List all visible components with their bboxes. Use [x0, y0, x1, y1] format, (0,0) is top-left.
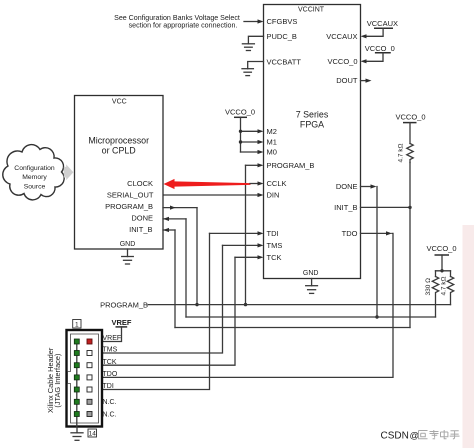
- svg-text:VCCO_0: VCCO_0: [426, 244, 456, 253]
- ground header: [71, 427, 83, 440]
- net PROGRAM_B row: [100, 301, 450, 310]
- svg-text:4.7 kΩ: 4.7 kΩ: [441, 276, 448, 295]
- svg-text:TDI: TDI: [103, 383, 114, 390]
- svg-text:14: 14: [89, 431, 97, 438]
- svg-text:CSDN: CSDN: [381, 431, 409, 442]
- svg-text:PROGRAM_B: PROGRAM_B: [100, 301, 148, 310]
- svg-text:N.C.: N.C.: [103, 399, 117, 406]
- wire M1: [239, 140, 264, 144]
- wire M2: [239, 129, 264, 133]
- svg-text:VCCAUX: VCCAUX: [326, 32, 357, 41]
- power VCCO_0 (INIT_B pullup): [395, 113, 425, 144]
- svg-text:330 Ω: 330 Ω: [425, 278, 432, 296]
- svg-text:Microprocessor: Microprocessor: [88, 135, 149, 145]
- net TDO: [92, 231, 393, 379]
- svg-text:INIT_B: INIT_B: [334, 203, 357, 212]
- header ground bus: [76, 342, 78, 428]
- svg-text:VCCBATT: VCCBATT: [267, 58, 302, 67]
- svg-text:TDO: TDO: [342, 229, 358, 238]
- svg-text:TDI: TDI: [267, 229, 279, 238]
- svg-text:CLOCK: CLOCK: [127, 179, 153, 188]
- wire CCLK pin arrow: [250, 181, 264, 185]
- net INIT_B (micro side): [163, 228, 175, 328]
- pink edge strip: [463, 225, 474, 448]
- svg-text:PROGRAM_B: PROGRAM_B: [105, 202, 153, 211]
- net PROGRAM_B (FPGA side vertical): [244, 163, 264, 306]
- svg-text:@: @: [410, 431, 420, 442]
- svg-text:1: 1: [75, 321, 79, 328]
- svg-text:VREF: VREF: [103, 335, 122, 342]
- svg-text:CCLK: CCLK: [267, 179, 287, 188]
- svg-text:7 Series: 7 Series: [296, 110, 329, 120]
- svg-text:VCCAUX: VCCAUX: [367, 19, 398, 28]
- pin 1 label: [73, 320, 81, 329]
- net TDI: [92, 231, 264, 389]
- svg-text:VCCO_0: VCCO_0: [327, 57, 357, 66]
- watermark CSDN: [381, 430, 460, 442]
- resistor 4.7k PROGRAM_B pullup: [441, 271, 454, 305]
- svg-text:VCCINT: VCCINT: [298, 6, 325, 13]
- ground micro: [122, 249, 134, 264]
- svg-text:SERIAL_OUT: SERIAL_OUT: [107, 190, 154, 199]
- svg-text:DONE: DONE: [336, 182, 358, 191]
- svg-text:VCCO_0: VCCO_0: [365, 44, 395, 53]
- header left pads (GND pins): [74, 339, 79, 417]
- wire M0: [241, 150, 264, 154]
- FPGA left pin labels: [267, 17, 315, 262]
- svg-text:TMS: TMS: [267, 241, 283, 250]
- svg-text:TCK: TCK: [267, 253, 282, 262]
- svg-text:(JTAG Interface): (JTAG Interface): [53, 354, 62, 408]
- svg-text:DIN: DIN: [267, 191, 280, 200]
- svg-text:or CPLD: or CPLD: [102, 146, 136, 156]
- wire CFGBVS: [244, 19, 264, 23]
- svg-text:4.7 kΩ: 4.7 kΩ: [398, 143, 405, 162]
- net DONE (FPGA side): [186, 184, 436, 318]
- svg-text:CFGBVS: CFGBVS: [267, 17, 298, 26]
- pin 14 label: [88, 429, 97, 438]
- resistor 330 DONE pullup: [425, 271, 439, 317]
- FPGA U1 box: [264, 5, 361, 279]
- wire DOUT: [361, 79, 372, 83]
- net INIT_B: [175, 163, 412, 328]
- note: See Configuration Banks text: [114, 14, 240, 29]
- svg-text:DONE: DONE: [131, 214, 153, 223]
- ground PUDC_B: [242, 36, 263, 50]
- power VREF: [93, 318, 132, 344]
- power VCCO_0 (mode pins): [225, 107, 255, 152]
- svg-text:VCCO_0: VCCO_0: [395, 113, 425, 122]
- svg-text:N.C.: N.C.: [103, 411, 117, 418]
- micro pin labels: [105, 179, 154, 234]
- svg-text:GND: GND: [120, 241, 136, 248]
- svg-text:FPGA: FPGA: [300, 120, 324, 130]
- red annotation arrow CCLK->CLOCK: [164, 179, 251, 189]
- svg-text:M2: M2: [267, 127, 277, 136]
- net TCK: [92, 255, 264, 365]
- svg-text:section for appropriate connec: section for appropriate connection.: [129, 21, 238, 29]
- microprocessor box: [75, 96, 164, 250]
- wire SERIAL_OUT to DIN: [163, 193, 264, 197]
- svg-text:PROGRAM_B: PROGRAM_B: [267, 161, 315, 170]
- net DONE (micro side): [163, 217, 186, 317]
- grey arrow cloud to micro: [64, 164, 74, 180]
- svg-text:Configuration: Configuration: [14, 165, 55, 172]
- FPGA right pin labels: [326, 32, 358, 238]
- net PROGRAM_B (micro side): [163, 206, 199, 307]
- power VCCAUX: [361, 19, 399, 38]
- svg-text:TMS: TMS: [103, 347, 118, 354]
- JTAG header connector body: [67, 330, 103, 427]
- ground FPGA: [306, 279, 318, 294]
- svg-text:VREF: VREF: [111, 318, 131, 327]
- cloud Configuration Memory Source: [3, 145, 64, 200]
- svg-text:GND: GND: [303, 270, 319, 277]
- svg-text:DOUT: DOUT: [336, 76, 358, 85]
- header pin labels: [103, 335, 122, 418]
- power VCCO_0 (right): [361, 44, 395, 63]
- svg-text:INIT_B: INIT_B: [129, 225, 152, 234]
- svg-text:PUDC_B: PUDC_B: [267, 32, 297, 41]
- resistor 4.7k INIT_B: [398, 143, 414, 162]
- svg-text:M1: M1: [267, 138, 277, 147]
- svg-text:TCK: TCK: [103, 359, 117, 366]
- svg-text:M0: M0: [267, 148, 277, 157]
- svg-text:Memory: Memory: [22, 174, 47, 181]
- net TMS: [92, 243, 264, 353]
- svg-text:Source: Source: [24, 184, 46, 191]
- svg-text:VCCO_0: VCCO_0: [225, 107, 255, 116]
- svg-text:TDO: TDO: [103, 371, 118, 378]
- power VCCO_0 (DONE/PROG pullups): [426, 244, 456, 272]
- header right pads: [87, 339, 92, 417]
- svg-text:VCC: VCC: [112, 99, 127, 106]
- ground VCCBATT: [242, 62, 264, 76]
